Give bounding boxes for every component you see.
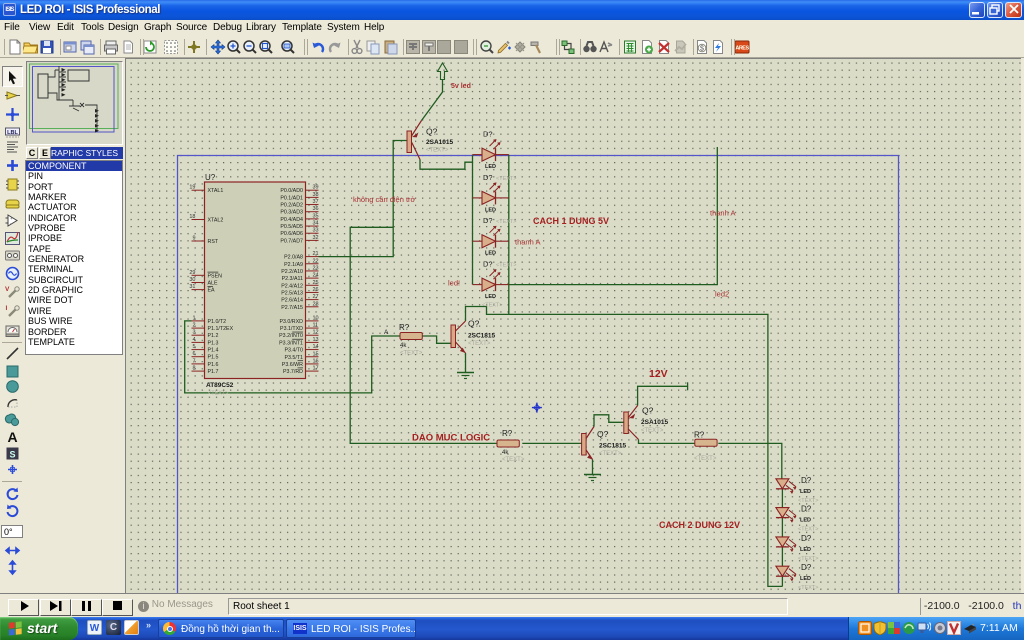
svg-text:<TEXT>: <TEXT> (798, 498, 818, 504)
svg-text:I: I (6, 305, 8, 312)
svg-text:LED: LED (485, 251, 496, 257)
svg-text:P3.1/TXD: P3.1/TXD (280, 326, 303, 332)
svg-text:LED: LED (800, 518, 811, 524)
svg-text:<TEXT>: <TEXT> (482, 303, 502, 309)
svg-text:39: 39 (313, 185, 319, 191)
svg-text:27: 27 (313, 294, 319, 300)
svg-text:led2: led2 (715, 290, 729, 299)
svg-text:12V: 12V (649, 368, 668, 380)
svg-text:P0.4/AD4: P0.4/AD4 (280, 217, 303, 223)
svg-text:$: $ (700, 46, 704, 53)
svg-text:<TEXT>: <TEXT> (798, 527, 818, 533)
svg-text:LBL: LBL (7, 129, 18, 135)
svg-text:P2.2/A10: P2.2/A10 (281, 269, 303, 275)
svg-text:Q?: Q? (597, 429, 609, 439)
svg-text:25: 25 (313, 280, 319, 286)
svg-text:4k: 4k (400, 343, 407, 349)
svg-text:XTAL2: XTAL2 (208, 218, 224, 224)
svg-text:LED: LED (800, 489, 811, 495)
svg-text:ARES: ARES (735, 46, 749, 52)
svg-text:P3.5/T1: P3.5/T1 (284, 355, 303, 361)
svg-text:38: 38 (313, 192, 319, 198)
svg-text:37: 37 (313, 199, 319, 205)
svg-text:10: 10 (313, 315, 319, 321)
svg-text:D?: D? (801, 534, 812, 543)
svg-text:18: 18 (189, 214, 195, 220)
svg-text:A: A (384, 329, 389, 336)
svg-text:V: V (5, 286, 10, 293)
svg-text:U?: U? (205, 173, 216, 182)
svg-text:24: 24 (313, 273, 319, 279)
svg-text:LED: LED (485, 294, 496, 300)
svg-text:<TEXT>: <TEXT> (208, 391, 228, 397)
svg-text:2SC1815: 2SC1815 (599, 443, 626, 450)
svg-text:12: 12 (313, 330, 319, 336)
svg-text:R?: R? (399, 323, 410, 332)
svg-text:Q?: Q? (426, 127, 438, 137)
svg-text:23: 23 (313, 265, 319, 271)
svg-text:<TEXT>: <TEXT> (496, 263, 516, 269)
svg-text:P0.7/AD7: P0.7/AD7 (280, 238, 303, 244)
svg-text:P0.3/AD3: P0.3/AD3 (280, 210, 303, 216)
svg-text:P1.2: P1.2 (208, 333, 219, 339)
svg-text:PSEN: PSEN (208, 273, 223, 279)
svg-text:LED: LED (485, 164, 496, 170)
svg-text:CACH 1 DUNG 5V: CACH 1 DUNG 5V (533, 216, 609, 226)
svg-text:15: 15 (313, 351, 319, 357)
svg-text:LED: LED (800, 547, 811, 553)
svg-text:5v led: 5v led (451, 83, 471, 90)
svg-text:P3.0/RXD: P3.0/RXD (279, 319, 303, 325)
svg-text:P2.1/A9: P2.1/A9 (284, 262, 303, 268)
svg-text:EA: EA (208, 288, 216, 294)
svg-text:17: 17 (313, 366, 319, 372)
svg-text:P2.6/A14: P2.6/A14 (281, 298, 303, 304)
svg-text:Q?: Q? (468, 319, 480, 329)
svg-text:2: 2 (192, 323, 195, 329)
svg-text:8: 8 (192, 366, 195, 372)
svg-text:P0.5/AD5: P0.5/AD5 (280, 224, 303, 230)
svg-text:2SA1015: 2SA1015 (641, 419, 668, 426)
svg-text:22: 22 (313, 258, 319, 264)
svg-text:26: 26 (313, 287, 319, 293)
svg-text:33: 33 (313, 228, 319, 234)
svg-text:A: A (7, 429, 17, 445)
svg-text:13: 13 (313, 337, 319, 343)
svg-text:P0.6/AD6: P0.6/AD6 (280, 231, 303, 237)
svg-text:thanh A: thanh A (710, 209, 735, 218)
svg-text:<TEXT>: <TEXT> (798, 585, 818, 591)
svg-text:6: 6 (192, 351, 195, 357)
svg-text:29: 29 (189, 270, 195, 276)
svg-text:<TEXT>: <TEXT> (641, 428, 664, 434)
svg-text:P1.0/T2: P1.0/T2 (208, 319, 227, 325)
svg-text:28: 28 (313, 301, 319, 307)
svg-text:9: 9 (192, 236, 195, 242)
svg-text:P2.4/A12: P2.4/A12 (281, 283, 303, 289)
svg-text:P1.1/T2EX: P1.1/T2EX (208, 326, 234, 332)
svg-text:led!: led! (448, 279, 460, 288)
svg-text:D?: D? (483, 130, 493, 139)
svg-text:7: 7 (192, 358, 195, 364)
svg-text:P1.5: P1.5 (208, 355, 219, 361)
svg-text:AT89C52: AT89C52 (206, 382, 234, 389)
svg-text:30: 30 (189, 277, 195, 283)
svg-text:<TEXT>: <TEXT> (694, 456, 717, 462)
svg-text:3: 3 (192, 330, 195, 336)
svg-text:P1.6: P1.6 (208, 362, 219, 368)
svg-text:31: 31 (189, 284, 195, 290)
svg-text:16: 16 (313, 358, 319, 364)
svg-text:14: 14 (313, 344, 319, 350)
svg-text:P3.4/T0: P3.4/T0 (284, 348, 303, 354)
svg-text:2SC1815: 2SC1815 (468, 333, 495, 340)
svg-text:P1.4: P1.4 (208, 348, 219, 354)
svg-text:CACH 2 DUNG 12V: CACH 2 DUNG 12V (659, 520, 740, 530)
svg-text:32: 32 (313, 235, 319, 241)
svg-text:<TEXT>: <TEXT> (798, 556, 818, 562)
svg-text:D?: D? (483, 260, 493, 269)
svg-text:XTAL1: XTAL1 (208, 188, 224, 194)
svg-text:LED: LED (800, 576, 811, 582)
svg-text:<TEXT>: <TEXT> (502, 457, 525, 463)
svg-text:2SA1015: 2SA1015 (426, 139, 453, 146)
svg-text:11: 11 (313, 323, 319, 329)
svg-text:D?: D? (801, 505, 812, 514)
svg-text:P0.2/AD2: P0.2/AD2 (280, 203, 303, 209)
svg-text:35: 35 (313, 213, 319, 219)
svg-text:34: 34 (313, 221, 319, 227)
svg-text:P2.3/A11: P2.3/A11 (282, 276, 303, 282)
svg-text:LED: LED (485, 207, 496, 213)
svg-text:19: 19 (189, 185, 195, 191)
svg-text:S: S (9, 449, 15, 459)
svg-text:D?: D? (801, 476, 812, 485)
svg-text:P3.2/INT0: P3.2/INT0 (279, 333, 303, 339)
svg-text:21: 21 (313, 251, 319, 257)
svg-text:<TEXT>: <TEXT> (400, 351, 423, 357)
svg-text:thanh A: thanh A (515, 238, 540, 247)
svg-text:R?: R? (502, 429, 513, 438)
svg-text:R?: R? (694, 431, 705, 440)
svg-text:4k: 4k (502, 450, 509, 456)
svg-text:không cần điện trở: không cần điện trở (353, 195, 416, 204)
svg-text:1: 1 (192, 315, 195, 321)
svg-text:<TEXT>: <TEXT> (496, 176, 516, 182)
svg-text:RST: RST (208, 239, 219, 245)
svg-text:<TEXT>: <TEXT> (496, 219, 516, 225)
svg-text:<TEXT>: <TEXT> (426, 148, 449, 154)
svg-text:D?: D? (801, 563, 812, 572)
svg-text:D?: D? (483, 173, 493, 182)
svg-text:P2.0/A8: P2.0/A8 (284, 255, 303, 261)
svg-text:<TEXT>: <TEXT> (468, 341, 491, 347)
svg-text:DAO MUC LOGIC: DAO MUC LOGIC (412, 433, 490, 444)
svg-text:P0.0/AD0: P0.0/AD0 (280, 188, 303, 194)
svg-text:P3.6/WR: P3.6/WR (282, 362, 303, 368)
svg-text:4: 4 (192, 337, 195, 343)
svg-text:D?: D? (483, 216, 493, 225)
svg-text:ALE: ALE (208, 281, 218, 287)
svg-text:36: 36 (313, 206, 319, 212)
svg-text:P2.7/A15: P2.7/A15 (281, 305, 303, 311)
svg-text:P1.7: P1.7 (208, 369, 219, 375)
svg-text:<TEXT>: <TEXT> (599, 451, 622, 457)
svg-text:P2.5/A13: P2.5/A13 (281, 290, 303, 296)
svg-text:P3.7/RD: P3.7/RD (283, 369, 303, 375)
svg-text:P3.3/INT1: P3.3/INT1 (279, 340, 303, 346)
svg-text:Q?: Q? (642, 406, 654, 416)
svg-text:P0.1/AD1: P0.1/AD1 (280, 195, 303, 201)
svg-text:P1.3: P1.3 (208, 340, 219, 346)
svg-text:5: 5 (192, 344, 195, 350)
